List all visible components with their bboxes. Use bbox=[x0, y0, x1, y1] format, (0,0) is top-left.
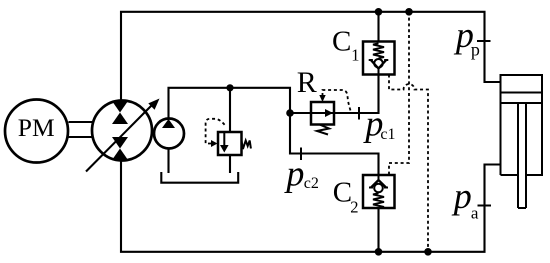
svg-text:c2: c2 bbox=[304, 175, 319, 192]
svg-text:c1: c1 bbox=[380, 126, 395, 143]
svg-text:R: R bbox=[297, 66, 317, 99]
svg-text:C: C bbox=[332, 26, 351, 58]
svg-text:p: p bbox=[451, 176, 472, 216]
svg-text:a: a bbox=[471, 203, 479, 222]
svg-text:1: 1 bbox=[351, 46, 359, 65]
svg-text:PM: PM bbox=[18, 113, 55, 142]
svg-text:p: p bbox=[283, 153, 304, 193]
svg-text:2: 2 bbox=[350, 198, 358, 217]
svg-text:C: C bbox=[333, 176, 352, 208]
svg-text:p: p bbox=[471, 39, 480, 59]
